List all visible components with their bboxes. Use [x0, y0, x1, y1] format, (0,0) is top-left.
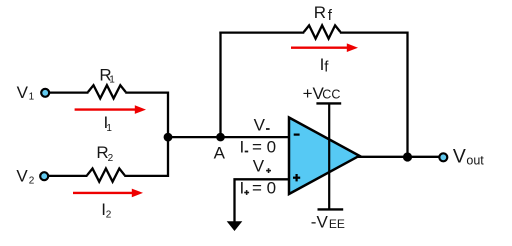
svg-text:EE: EE: [329, 217, 345, 231]
current arrow If: [291, 43, 358, 52]
label Rf: [314, 3, 333, 24]
junction of R1/R2: [164, 133, 173, 142]
svg-text:2: 2: [108, 153, 114, 164]
svg-text:I: I: [240, 178, 245, 197]
supply rail line through op-amp: [328, 103, 330, 209]
current arrow I1: [75, 105, 146, 114]
svg-text:2: 2: [106, 210, 112, 221]
terminal V1: [41, 89, 49, 97]
svg-text:2: 2: [29, 176, 35, 187]
label I1: [104, 113, 113, 134]
op-amp U1: [289, 118, 359, 195]
resistor Rf: [304, 25, 341, 38]
svg-text:V: V: [17, 83, 29, 102]
svg-text:+V: +V: [303, 84, 325, 103]
label V-: [254, 115, 270, 134]
wire R2 to junction: [124, 137, 168, 176]
svg-text:out: out: [466, 153, 484, 167]
svg-text:V: V: [453, 145, 466, 167]
label I- = 0: [240, 138, 277, 157]
wire junction to op-amp inverting input: [168, 136, 290, 138]
label +VCC: [303, 84, 341, 103]
label If: [320, 55, 330, 76]
wire V2 to R2: [48, 175, 87, 177]
node A: [216, 133, 225, 142]
svg-text:V: V: [254, 115, 266, 134]
terminal V2: [40, 172, 48, 180]
svg-text:R: R: [314, 3, 326, 22]
inverting input mark -: [294, 134, 300, 136]
wire op-amp output: [358, 156, 439, 158]
label I2: [101, 200, 112, 220]
svg-text:= 0: = 0: [252, 138, 276, 157]
label R2: [96, 143, 113, 164]
resistor R1: [88, 85, 126, 98]
label V+: [253, 156, 271, 175]
wire V1 to R1: [49, 91, 88, 93]
svg-text:A: A: [214, 144, 226, 163]
wire feedback top left: [219, 31, 304, 33]
wire op-amp + input to ground: [235, 179, 290, 222]
svg-text:-V: -V: [311, 212, 329, 231]
svg-text:1: 1: [109, 75, 115, 86]
label I+ = 0: [240, 178, 277, 197]
label R1: [99, 65, 115, 85]
label -VEE: [311, 212, 345, 231]
positive supply bar +VCC: [316, 102, 341, 104]
label Vout: [453, 145, 484, 167]
resistor R2: [87, 169, 125, 182]
label V1: [17, 83, 35, 103]
current arrow I2: [73, 189, 143, 198]
label V2: [16, 167, 34, 187]
wire R1 to junction: [125, 93, 168, 138]
svg-text:I: I: [240, 138, 245, 157]
svg-text:CC: CC: [322, 88, 340, 102]
svg-text:= 0: = 0: [252, 178, 276, 197]
ground: [227, 221, 243, 231]
wire node A up to feedback: [219, 32, 221, 138]
negative supply bar -VEE: [318, 208, 344, 210]
svg-text:1: 1: [29, 92, 35, 103]
output junction: [403, 152, 412, 161]
terminal Vout: [439, 153, 447, 161]
svg-text:V: V: [16, 167, 28, 186]
svg-text:1: 1: [106, 123, 112, 134]
non-inverting input mark +: [293, 174, 300, 181]
wire Rf to output node: [340, 33, 408, 157]
svg-text:V: V: [253, 156, 265, 175]
